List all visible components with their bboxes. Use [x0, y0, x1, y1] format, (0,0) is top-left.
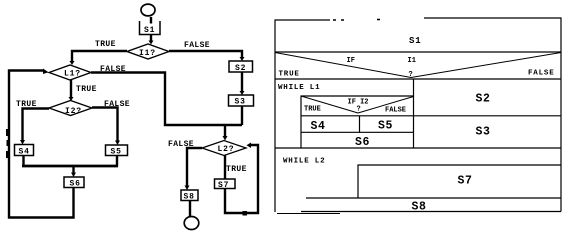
wire S6 loop back: [9, 71, 74, 218]
NS while L2 body box: [358, 165, 561, 198]
wire L1 TRUE: [70, 80, 72, 98]
wire start to S1: [150, 17, 152, 24]
svg-text:TRUE: TRUE: [304, 106, 321, 114]
svg-text:S6: S6: [355, 136, 370, 149]
NS IF I1 right diagonal: [411, 53, 561, 78]
svg-text:I2?: I2?: [65, 107, 82, 116]
svg-text:TRUE: TRUE: [16, 100, 37, 109]
wire S3 down: [241, 106, 243, 125]
NS IF I2 left diagonal: [301, 96, 358, 113]
svg-text:S6: S6: [70, 180, 81, 189]
svg-text:?: ?: [357, 106, 361, 114]
svg-text:S3: S3: [476, 126, 491, 139]
NS column divider: [413, 79, 415, 148]
svg-text:FALSE: FALSE: [104, 100, 130, 109]
NS IF I2 right diagonal: [358, 97, 414, 114]
svg-text:TRUE: TRUE: [95, 40, 116, 49]
svg-text:L1?: L1?: [64, 70, 81, 79]
svg-text:FALSE: FALSE: [385, 107, 406, 115]
start circle: [141, 4, 155, 16]
wire S1 to I1: [150, 35, 152, 43]
NS divider under S4 S5: [301, 131, 414, 133]
diamond I1: [127, 44, 169, 59]
svg-text:S3: S3: [235, 98, 246, 107]
svg-text:WHILE L1: WHILE L1: [278, 84, 320, 92]
box S3: [229, 95, 254, 106]
svg-text:TRUE: TRUE: [279, 71, 300, 79]
wire L2 TRUE: [224, 156, 226, 180]
svg-text:WHILE L2: WHILE L2: [283, 158, 325, 166]
wire S4 down: [22, 156, 24, 167]
svg-text:FALSE: FALSE: [528, 70, 555, 78]
diamond L2: [202, 141, 246, 156]
box S7 flowchart: [215, 179, 236, 189]
svg-text:?: ?: [409, 71, 413, 79]
svg-text:TRUE: TRUE: [76, 85, 97, 94]
wire L1 FALSE: [91, 73, 242, 126]
end circle: [184, 217, 199, 230]
wire join: [22, 165, 118, 168]
wire S5 down: [116, 156, 118, 167]
NS outer box: [275, 18, 561, 214]
wire join to S6: [72, 166, 74, 174]
box S4: [15, 145, 34, 156]
NS divider under IF row: [275, 78, 561, 80]
wire to L2: [224, 125, 226, 137]
NS divider under S1: [275, 51, 561, 53]
NS divider under S6: [275, 147, 561, 149]
svg-text:S1: S1: [409, 36, 421, 46]
box S1: [140, 21, 161, 35]
NS divider under S7: [306, 197, 561, 199]
wire L2 FALSE: [187, 148, 202, 187]
svg-text:FALSE: FALSE: [100, 65, 126, 74]
NS bottom dash: [277, 213, 340, 215]
svg-text:S5: S5: [111, 148, 122, 157]
wire I1 FALSE: [169, 51, 242, 58]
wire blob artifacts on left loop: [6, 129, 10, 136]
wire S8 to end: [189, 201, 191, 217]
NS S4 S5 divider: [359, 116, 361, 133]
svg-text:L2?: L2?: [218, 145, 235, 154]
wire S7 return loop: [225, 145, 258, 213]
svg-text:S5: S5: [378, 120, 393, 133]
svg-text:FALSE: FALSE: [168, 140, 194, 149]
wire S2 to S3: [241, 72, 243, 92]
NS while L1 body box: [301, 96, 414, 148]
box S8 flowchart: [181, 190, 198, 201]
box S2: [229, 61, 253, 72]
wire I1 TRUE: [72, 51, 127, 62]
box S5: [106, 145, 128, 156]
svg-text:FALSE: FALSE: [184, 41, 210, 50]
wire I2 FALSE: [92, 108, 118, 142]
svg-text:S7: S7: [458, 175, 473, 188]
svg-text:S2: S2: [235, 64, 246, 73]
svg-text:S4: S4: [311, 120, 326, 133]
NS divider under IF I2 row: [301, 115, 561, 117]
NS divider under S8: [301, 211, 561, 213]
svg-text:IF: IF: [347, 57, 355, 65]
svg-text:S4: S4: [19, 148, 30, 157]
svg-text:S8: S8: [412, 201, 427, 214]
svg-text:I1?: I1?: [139, 49, 156, 58]
diamond I2: [49, 101, 92, 116]
svg-text:S1: S1: [144, 26, 155, 35]
svg-text:TRUE: TRUE: [226, 165, 247, 174]
svg-text:I1: I1: [408, 57, 416, 65]
svg-text:S8: S8: [184, 193, 195, 202]
svg-text:S2: S2: [476, 93, 491, 106]
wire I2 TRUE: [23, 109, 50, 142]
diamond L1: [49, 65, 91, 80]
NS IF I1 left diagonal: [275, 53, 411, 78]
svg-text:S7: S7: [218, 181, 229, 190]
junction dot: [243, 211, 248, 216]
box S6: [64, 177, 84, 188]
